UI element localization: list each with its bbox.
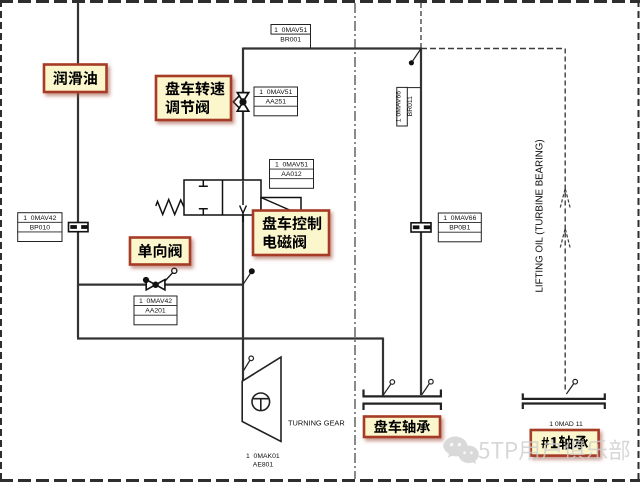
callout label: check valve 单向阀 [130,238,190,265]
KKS label 1 0MAV66 BR011 (rotated tag, right branch) [395,87,420,126]
wire: lube oil supply pipe (left vertical + bottom horizontal to turning-gear bearing) [77,2,383,396]
check valve 1 0MAV42 AA201 [143,268,177,290]
flow arrow up 2 on lifting-oil line [560,229,570,248]
svg-text:1 0MAD 11: 1 0MAD 11 [549,421,583,428]
turning gear bearing symbol with oil nozzles [364,379,441,410]
callout label: turning gear control solenoid valve 盘车控制电磁阀 [253,211,329,256]
KKS label 1 0MAV51 AA251 [254,87,298,116]
svg-text:TURNING GEAR: TURNING GEAR [288,419,345,428]
turning gear device 1 0MAK01 AE801 [242,356,281,442]
flow arrow up 1 on lifting-oil line [560,189,570,208]
svg-text:1 0MAV42: 1 0MAV42 [23,215,56,222]
svg-text:AA012: AA012 [281,171,302,178]
svg-text:AA251: AA251 [266,99,287,106]
callout label: lube oil 润滑油 [44,65,107,93]
turning gear control solenoid valve 1 0MAV51 AA012 (2-position directional valve) [184,180,261,222]
svg-text:1 0MAV51: 1 0MAV51 [274,27,307,34]
svg-text:1 0MAV51: 1 0MAV51 [275,162,308,169]
svg-text:AA201: AA201 [145,308,166,315]
callout label: turning gear bearing 盘车轴承 [364,417,440,438]
svg-text:1 0MAV42: 1 0MAV42 [139,298,172,305]
svg-text:BR001: BR001 [280,37,301,44]
svg-text:1 0MAV51: 1 0MAV51 [259,89,292,96]
junction node with tag point on center branch [243,268,255,284]
wire: center branch vertical (through speed valve and solenoid valve to turning gear) [242,48,244,382]
svg-text:AE801: AE801 [253,461,274,468]
KKS label 1 0MAV51 AA012 [270,160,314,189]
dashed continuation line above lube oil pipe (x=421) [420,3,422,49]
callout label: #1 bearing #1轴承 [531,430,599,456]
svg-text:BR011: BR011 [407,96,414,116]
orifice/restrictor 1 0MAV42 BP010 on left pipe [69,223,89,232]
svg-text:1 0MAV66: 1 0MAV66 [443,215,476,222]
watermark: WeChat logo and 5TP user club [443,437,479,465]
dashed lifting-oil line to #1 bearing (x=565) [564,49,566,393]
KKS label 1 0MAV51 BR001 (top pipe tag) [271,25,311,49]
junction node with tag point on right branch top [409,49,421,66]
svg-text:1 0MAK01: 1 0MAK01 [246,453,280,460]
wire: check-valve cross line [78,284,243,286]
solenoid actuator box [261,198,301,216]
battery-limit dash-dot line (vertical, x=355) [354,3,356,479]
spring (return) on solenoid valve [156,200,184,215]
callout label: turning gear speed control valve 盘车转速调节阀 [156,76,231,120]
dashed lifting-oil header line (y=48.5) [421,48,565,50]
wire: top header pipe to right branch [243,48,421,396]
#1 bearing symbol with oil nozzle [523,379,605,409]
svg-text:BP010: BP010 [30,224,51,231]
svg-text:1 0MAV66: 1 0MAV66 [395,91,402,122]
KKS label 1 0MAV66 BP0B1 [438,213,481,242]
svg-text:LIFTING OIL (TURBINE BEARING): LIFTING OIL (TURBINE BEARING) [535,139,546,292]
orifice/restrictor 1 0MAV66 on right pipe [411,223,431,232]
KKS label 1 0MAV42 BP010 [18,213,62,242]
turning gear speed control valve 1 0MAV51 AA251 (needle valve) [233,93,248,112]
KKS label 1 0MAV42 AA201 [134,296,177,325]
svg-text:BP0B1: BP0B1 [449,225,470,232]
